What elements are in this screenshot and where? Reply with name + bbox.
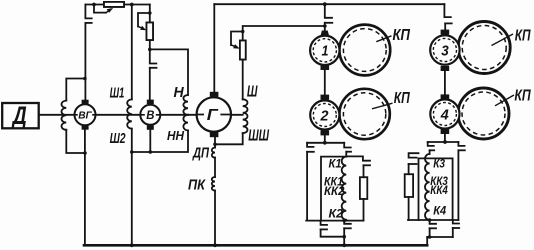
svg-text:КП: КП xyxy=(514,87,531,104)
svg-text:Ш2: Ш2 xyxy=(110,130,126,147)
svg-text:Ш: Ш xyxy=(247,83,258,100)
svg-text:ШШ: ШШ xyxy=(248,128,269,145)
svg-text:К4: К4 xyxy=(433,206,447,218)
svg-text:2: 2 xyxy=(320,108,329,124)
svg-text:К1: К1 xyxy=(329,158,342,170)
svg-text:ВГ: ВГ xyxy=(78,110,92,122)
svg-text:1: 1 xyxy=(322,44,329,60)
svg-text:ДП: ДП xyxy=(192,144,210,161)
svg-text:4: 4 xyxy=(440,107,449,123)
svg-text:КК2: КК2 xyxy=(324,186,345,198)
svg-text:Н: Н xyxy=(174,84,185,101)
svg-text:КК4: КК4 xyxy=(430,185,448,197)
svg-text:КП: КП xyxy=(393,27,411,44)
svg-text:В: В xyxy=(146,110,154,122)
svg-text:К3: К3 xyxy=(433,158,445,170)
svg-text:Д: Д xyxy=(11,102,27,130)
svg-text:К2: К2 xyxy=(329,208,344,220)
svg-text:3: 3 xyxy=(441,43,449,59)
svg-text:НН: НН xyxy=(167,129,185,143)
svg-text:КП: КП xyxy=(515,28,531,45)
svg-text:Г: Г xyxy=(207,107,220,124)
svg-text:КП: КП xyxy=(394,90,411,107)
svg-text:ПК: ПК xyxy=(188,177,207,194)
svg-text:Ш1: Ш1 xyxy=(110,85,125,102)
